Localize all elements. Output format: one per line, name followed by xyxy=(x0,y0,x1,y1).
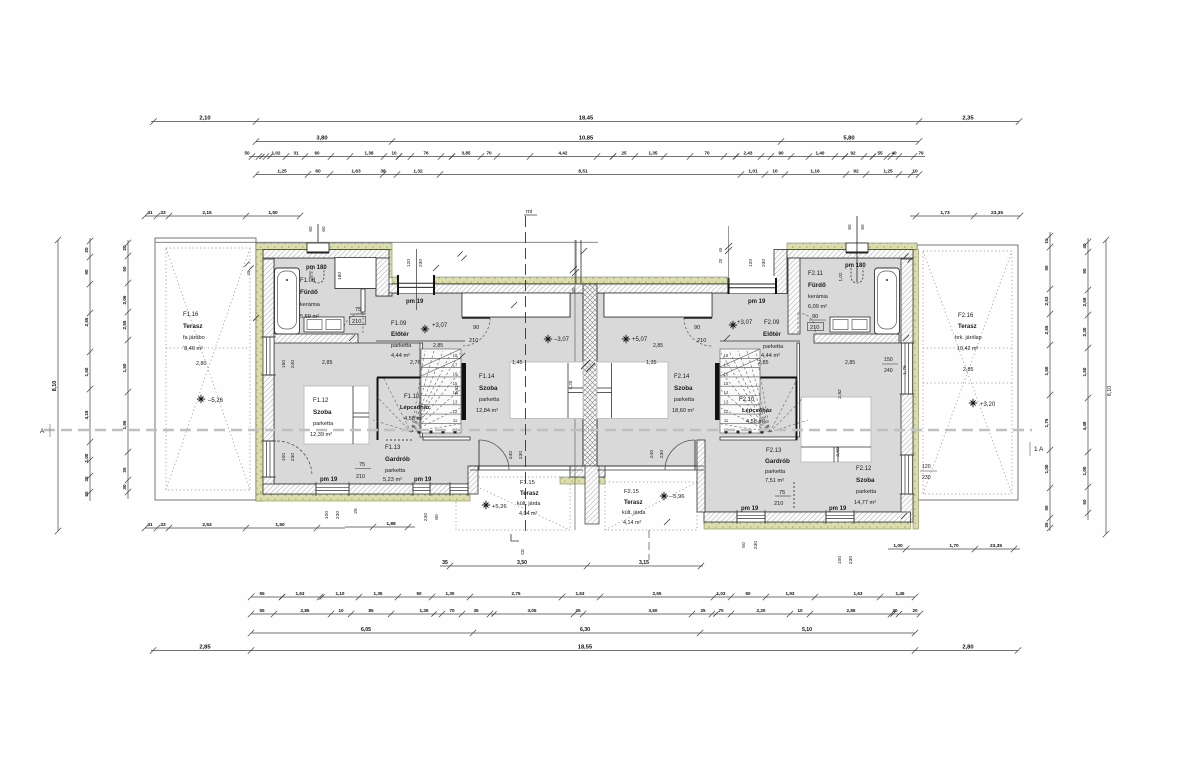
svg-text:50: 50 xyxy=(1082,499,1087,505)
misc tick marks xyxy=(253,248,909,525)
svg-text:2,15: 2,15 xyxy=(202,210,212,216)
bed F2.14 xyxy=(597,362,668,419)
svg-text:pm 19: pm 19 xyxy=(414,477,432,483)
svg-text:2,76: 2,76 xyxy=(410,360,421,366)
dimension chain bottom row D xyxy=(248,630,918,636)
entry door F2 xyxy=(684,317,712,319)
svg-text:33: 33 xyxy=(160,210,166,216)
svg-text:2,82: 2,82 xyxy=(837,389,843,399)
svg-text:–3,07: –3,07 xyxy=(554,337,570,343)
svg-text:pm 19: pm 19 xyxy=(320,477,338,483)
svg-text:90: 90 xyxy=(1044,505,1049,511)
svg-text:12: 12 xyxy=(724,409,729,414)
svg-text:kerámia: kerámia xyxy=(300,302,321,308)
staircase F1.10 xyxy=(421,349,461,433)
svg-text:1,88: 1,88 xyxy=(386,521,396,527)
stair well walls F1 (bold) xyxy=(377,377,421,379)
svg-text:1,63: 1,63 xyxy=(296,591,305,596)
dimension chain top main xyxy=(253,138,922,144)
svg-text:2,80: 2,80 xyxy=(962,645,973,651)
svg-text:1,02: 1,02 xyxy=(272,151,281,156)
svg-text:210: 210 xyxy=(469,338,478,344)
dimension chain top row4 xyxy=(253,171,922,177)
svg-text:1,35: 1,35 xyxy=(649,151,658,156)
svg-text:1,50: 1,50 xyxy=(268,210,278,216)
svg-text:1,00: 1,00 xyxy=(1082,466,1087,475)
svg-text:kült. járda: kült. járda xyxy=(517,501,540,507)
svg-text:50: 50 xyxy=(741,542,747,548)
svg-text:10: 10 xyxy=(338,608,344,613)
svg-text:13: 13 xyxy=(724,400,729,405)
window right wall lower 120/230 xyxy=(900,455,915,494)
window right wall upper 150/240 xyxy=(900,343,915,394)
svg-text:70: 70 xyxy=(486,151,492,156)
svg-text:5,23 m²: 5,23 m² xyxy=(383,477,402,483)
svg-text:1 A: 1 A xyxy=(1034,446,1044,453)
dimension chain bottom terrace doors xyxy=(440,563,704,569)
svg-text:75: 75 xyxy=(359,462,365,468)
svg-text:co: co xyxy=(520,549,526,555)
svg-text:50: 50 xyxy=(745,591,751,596)
svg-text:4,42: 4,42 xyxy=(559,151,568,156)
svg-text:90: 90 xyxy=(84,269,89,275)
floor F2 unit (gray) xyxy=(597,258,902,512)
insulation band (olive) xyxy=(256,243,919,529)
svg-text:F2.13: F2.13 xyxy=(766,448,782,454)
svg-text:10,42 m²: 10,42 m² xyxy=(957,346,978,352)
svg-text:1,45: 1,45 xyxy=(512,360,523,366)
svg-text:230: 230 xyxy=(922,475,931,481)
svg-text:100: 100 xyxy=(837,556,843,564)
washbasins F2 xyxy=(830,317,870,332)
svg-text:1,02: 1,02 xyxy=(838,272,843,281)
svg-text:230: 230 xyxy=(418,259,424,267)
svg-text:2,85: 2,85 xyxy=(433,343,443,349)
svg-text:18: 18 xyxy=(724,353,729,358)
svg-text:2,30: 2,30 xyxy=(1082,327,1087,336)
svg-text:3,80: 3,80 xyxy=(316,136,327,142)
svg-text:4,58 m²: 4,58 m² xyxy=(404,416,423,422)
svg-text:Előtér: Előtér xyxy=(763,331,781,338)
svg-text:10: 10 xyxy=(797,608,803,613)
svg-text:25: 25 xyxy=(353,508,359,514)
svg-text:parketta: parketta xyxy=(674,397,695,403)
svg-text:90: 90 xyxy=(473,325,479,331)
svg-text:240: 240 xyxy=(649,450,655,458)
room labels F2 unit xyxy=(622,335,630,343)
svg-text:4,20: 4,20 xyxy=(568,380,573,389)
svg-text:2,85: 2,85 xyxy=(758,360,769,366)
svg-text:210: 210 xyxy=(774,501,783,507)
svg-text:2,85: 2,85 xyxy=(199,645,211,651)
terrace F1.16 (left) xyxy=(155,238,256,500)
svg-text:33: 33 xyxy=(160,522,166,528)
terrace door F1.14 xyxy=(479,440,509,470)
svg-text:4,04 m²: 4,04 m² xyxy=(519,511,537,517)
svg-text:18,45: 18,45 xyxy=(579,116,594,122)
svg-text:2,85: 2,85 xyxy=(845,360,855,366)
svg-text:230: 230 xyxy=(290,453,296,461)
svg-text:1,35: 1,35 xyxy=(374,591,383,596)
svg-text:25: 25 xyxy=(575,608,581,613)
svg-text:31: 31 xyxy=(147,522,153,528)
svg-text:120: 120 xyxy=(406,259,412,267)
svg-text:230: 230 xyxy=(753,541,759,549)
svg-text:1,95: 1,95 xyxy=(122,420,127,429)
svg-text:8,10: 8,10 xyxy=(52,381,58,392)
svg-text:100: 100 xyxy=(281,453,287,461)
washbasins F1 xyxy=(304,317,344,332)
svg-text:120: 120 xyxy=(922,464,931,470)
svg-text:–5,96: –5,96 xyxy=(670,494,685,500)
dimension chain top-right terrace chain xyxy=(910,213,1023,219)
svg-text:2,85: 2,85 xyxy=(653,343,663,349)
svg-text:90: 90 xyxy=(694,325,700,331)
svg-text:120: 120 xyxy=(748,259,754,267)
svg-text:15: 15 xyxy=(453,381,458,386)
svg-text:23,35: 23,35 xyxy=(990,543,1002,549)
axis A (horizontal, dashed gray) xyxy=(44,429,1032,432)
svg-text:35: 35 xyxy=(473,608,479,613)
svg-text:92: 92 xyxy=(853,169,859,175)
extra double slashes, corner marks xyxy=(244,154,912,617)
svg-text:1,25: 1,25 xyxy=(883,169,893,175)
svg-text:1,30: 1,30 xyxy=(446,591,455,596)
svg-text:230: 230 xyxy=(761,259,767,267)
svg-text:240: 240 xyxy=(508,451,514,459)
svg-text:1,32: 1,32 xyxy=(413,169,423,175)
svg-text:Terasz: Terasz xyxy=(624,500,643,506)
svg-text:12: 12 xyxy=(453,409,458,414)
svg-text:1,70: 1,70 xyxy=(949,543,959,549)
svg-text:F2.11: F2.11 xyxy=(808,271,824,277)
svg-text:10: 10 xyxy=(391,151,397,156)
svg-text:3,60: 3,60 xyxy=(649,608,658,613)
svg-text:mi: mi xyxy=(526,209,532,215)
svg-text:31: 31 xyxy=(147,210,153,216)
axis mi (vertical, dashed) xyxy=(525,216,527,532)
svg-text:pm 19: pm 19 xyxy=(829,506,847,512)
svg-text:2,75: 2,75 xyxy=(512,591,521,596)
svg-text:Gardrób: Gardrób xyxy=(765,458,790,465)
opening bottom wall F1 pm19 xyxy=(413,482,430,496)
svg-text:31: 31 xyxy=(293,151,299,156)
svg-text:fa járóbo: fa járóbo xyxy=(183,335,205,341)
svg-text:60: 60 xyxy=(314,151,320,156)
svg-text:2,58: 2,58 xyxy=(1082,297,1087,306)
bath door F2.11 (dashed swing) xyxy=(798,313,815,333)
svg-text:18,60 m²: 18,60 m² xyxy=(672,408,694,414)
svg-text:18,55: 18,55 xyxy=(578,645,593,651)
svg-text:2,55: 2,55 xyxy=(653,591,662,596)
entry door F1 xyxy=(462,317,490,319)
svg-text:parketta: parketta xyxy=(856,489,877,495)
interior partition walls xyxy=(420,343,800,440)
bed F1.14 xyxy=(510,362,583,419)
eaves line xyxy=(155,241,598,243)
svg-text:Lépcsőház: Lépcsőház xyxy=(400,405,430,411)
svg-text:parketta: parketta xyxy=(763,344,784,350)
svg-text:1,50: 1,50 xyxy=(84,367,89,376)
svg-text:+3,07: +3,07 xyxy=(737,320,753,326)
terrace door F2.14 xyxy=(665,440,695,470)
svg-text:11: 11 xyxy=(724,418,729,423)
svg-text:11: 11 xyxy=(453,418,458,423)
svg-text:2,35: 2,35 xyxy=(962,116,974,122)
svg-text:4,48: 4,48 xyxy=(1082,421,1087,430)
svg-text:2,85: 2,85 xyxy=(322,360,333,366)
svg-text:1,73: 1,73 xyxy=(940,210,950,216)
entry window left 120/230 xyxy=(398,276,434,293)
staircase F2.10 xyxy=(720,349,760,433)
svg-text:parketta: parketta xyxy=(479,397,500,403)
svg-text:2,82: 2,82 xyxy=(454,385,460,395)
svg-text:40: 40 xyxy=(1082,243,1087,249)
svg-text:F1.14: F1.14 xyxy=(479,374,495,380)
property line xyxy=(574,240,576,530)
svg-text:4,14 m²: 4,14 m² xyxy=(623,520,641,526)
svg-text:2,53: 2,53 xyxy=(1044,296,1049,305)
svg-text:+5,26: +5,26 xyxy=(492,504,507,510)
svg-text:5,80: 5,80 xyxy=(843,136,854,142)
dimension chain bottom overall xyxy=(150,647,1021,653)
svg-text:2,55: 2,55 xyxy=(122,320,127,329)
svg-text:180: 180 xyxy=(337,272,343,280)
svg-text:F1.09: F1.09 xyxy=(391,321,407,327)
svg-text:A: A xyxy=(40,428,45,435)
small wall bath door F1 xyxy=(361,289,365,312)
svg-text:3,50: 3,50 xyxy=(517,560,527,566)
svg-text:45: 45 xyxy=(246,270,251,275)
svg-text:12,39 m²: 12,39 m² xyxy=(310,432,332,438)
svg-text:+5,07: +5,07 xyxy=(632,337,648,343)
svg-text:brk. járólap: brk. járólap xyxy=(955,335,982,341)
svg-text:Gardrób: Gardrób xyxy=(385,456,410,463)
svg-text:230: 230 xyxy=(518,451,524,459)
svg-text:1,45: 1,45 xyxy=(896,591,905,596)
svg-text:Előtér: Előtér xyxy=(391,331,409,338)
svg-text:F1.08: F1.08 xyxy=(300,278,316,284)
bath door F1.08 (dashed swing) xyxy=(343,313,363,333)
svg-text:70: 70 xyxy=(704,151,710,156)
entry porch F1 (white recess) xyxy=(462,293,570,317)
svg-text:1,16: 1,16 xyxy=(810,169,820,175)
dimension chain bottom-left terrace chain xyxy=(142,525,345,531)
svg-text:55: 55 xyxy=(877,151,883,156)
svg-text:92: 92 xyxy=(850,151,856,156)
svg-text:20: 20 xyxy=(718,258,723,263)
gardrob door F1.13 xyxy=(386,439,412,441)
svg-text:60: 60 xyxy=(860,224,865,230)
svg-text:pm 19: pm 19 xyxy=(748,299,766,305)
svg-text:F1.10: F1.10 xyxy=(404,394,420,400)
svg-text:60: 60 xyxy=(315,169,321,175)
chimney / vent right xyxy=(846,243,868,253)
svg-text:1,75: 1,75 xyxy=(1044,418,1049,427)
floor F1 unit (gray) xyxy=(274,258,583,484)
svg-text:20: 20 xyxy=(122,245,127,251)
svg-text:8,10: 8,10 xyxy=(1107,386,1113,397)
svg-text:50: 50 xyxy=(416,591,422,596)
svg-text:parketta: parketta xyxy=(391,343,412,349)
svg-text:50: 50 xyxy=(244,151,250,156)
svg-text:1,00: 1,00 xyxy=(893,543,903,549)
svg-text:20: 20 xyxy=(912,608,918,613)
svg-text:240: 240 xyxy=(290,360,296,368)
svg-text:15: 15 xyxy=(1044,238,1049,244)
window bottom wall F2 100/230 xyxy=(826,510,854,524)
svg-text:35: 35 xyxy=(1044,522,1049,528)
svg-text:60: 60 xyxy=(308,226,313,232)
svg-text:1,50: 1,50 xyxy=(1044,366,1049,375)
svg-text:1,93: 1,93 xyxy=(786,591,795,596)
svg-text:parketta: parketta xyxy=(765,469,786,475)
svg-text:230: 230 xyxy=(848,556,854,564)
party wall axis above xyxy=(575,240,577,283)
svg-text:23,35: 23,35 xyxy=(991,210,1003,216)
svg-text:1,53: 1,53 xyxy=(576,591,585,596)
svg-text:Terasz: Terasz xyxy=(958,324,977,330)
svg-text:pm 180: pm 180 xyxy=(845,263,866,269)
svg-text:Szoba: Szoba xyxy=(674,385,693,392)
svg-text:45: 45 xyxy=(718,247,723,252)
svg-text:75: 75 xyxy=(779,490,785,496)
gardrob door F2.13 xyxy=(793,482,795,510)
terrace F2.15 (bottom centre-right) xyxy=(605,482,697,530)
chimney / vent left xyxy=(307,243,329,253)
dimension chain left row3 xyxy=(125,240,131,499)
svg-text:F1.15: F1.15 xyxy=(520,480,535,486)
svg-text:230: 230 xyxy=(335,511,341,519)
svg-text:1,63: 1,63 xyxy=(854,591,863,596)
svg-text:F2.10: F2.10 xyxy=(739,397,755,403)
svg-text:55: 55 xyxy=(259,591,265,596)
svg-text:40: 40 xyxy=(891,151,897,156)
svg-text:75: 75 xyxy=(355,307,361,313)
dimension chain bottom-right terrace chain xyxy=(888,546,1020,552)
dimension chain right row1 xyxy=(1047,232,1053,531)
svg-text:100: 100 xyxy=(324,511,330,519)
svg-text:2,60: 2,60 xyxy=(835,447,841,457)
svg-text:38: 38 xyxy=(380,169,386,175)
svg-text:2,55: 2,55 xyxy=(84,317,89,326)
svg-text:70: 70 xyxy=(718,608,724,613)
svg-text:85: 85 xyxy=(368,608,374,613)
svg-text:Szoba: Szoba xyxy=(856,477,875,484)
svg-text:F2.12: F2.12 xyxy=(856,466,872,472)
svg-text:35: 35 xyxy=(122,467,127,473)
svg-text:1,63: 1,63 xyxy=(351,169,361,175)
svg-text:2,55: 2,55 xyxy=(1044,325,1049,334)
svg-text:6,05: 6,05 xyxy=(361,627,371,633)
svg-text:Fürdő: Fürdő xyxy=(300,289,318,296)
svg-text:2,53: 2,53 xyxy=(202,522,212,528)
svg-text:55: 55 xyxy=(259,608,265,613)
bathtub F2 xyxy=(875,268,900,334)
svg-text:F2.16: F2.16 xyxy=(958,313,974,319)
svg-text:230: 230 xyxy=(659,450,665,458)
svg-text:1,40: 1,40 xyxy=(816,151,825,156)
svg-text:2,20: 2,20 xyxy=(757,608,766,613)
svg-text:1,10: 1,10 xyxy=(336,591,345,596)
svg-text:kült. járda: kült. járda xyxy=(622,510,645,516)
svg-text:7,51 m²: 7,51 m² xyxy=(765,478,784,484)
svg-text:1,35: 1,35 xyxy=(646,360,657,366)
F2.15 terrace axis xyxy=(648,530,650,560)
svg-text:20: 20 xyxy=(84,247,89,253)
svg-text:25: 25 xyxy=(700,608,706,613)
svg-text:30: 30 xyxy=(122,484,127,490)
svg-text:80: 80 xyxy=(434,514,440,520)
svg-text:10,85: 10,85 xyxy=(579,136,594,142)
party wall (cross-hatched) xyxy=(583,284,597,466)
svg-text:76: 76 xyxy=(423,151,429,156)
svg-text:1,50: 1,50 xyxy=(275,522,285,528)
svg-text:210: 210 xyxy=(810,325,819,331)
svg-text:parketta: parketta xyxy=(385,468,406,474)
dimension chain left overall xyxy=(55,237,61,534)
svg-text:150: 150 xyxy=(281,360,287,368)
svg-text:F1.12: F1.12 xyxy=(313,398,329,404)
svg-text:210: 210 xyxy=(352,319,361,325)
svg-text:+3,07: +3,07 xyxy=(432,323,448,329)
svg-text:F2.09: F2.09 xyxy=(764,320,780,326)
svg-text:50: 50 xyxy=(122,266,127,272)
svg-text:pm 19: pm 19 xyxy=(741,506,759,512)
opening bottom wall F1 xyxy=(450,482,468,496)
dimension chain right row2 xyxy=(1085,238,1091,520)
svg-text:15: 15 xyxy=(724,381,729,386)
svg-text:1,35: 1,35 xyxy=(420,608,429,613)
svg-text:1,76: 1,76 xyxy=(902,365,908,375)
glazed walls to inner terraces xyxy=(470,466,704,470)
dimension chain left row2 xyxy=(87,238,93,501)
svg-text:8,51: 8,51 xyxy=(578,169,588,175)
svg-text:2,85: 2,85 xyxy=(301,608,310,613)
svg-text:60: 60 xyxy=(847,224,852,230)
svg-text:6,30: 6,30 xyxy=(580,627,590,633)
svg-text:1,38: 1,38 xyxy=(365,151,374,156)
svg-text:Szoba: Szoba xyxy=(313,409,332,416)
svg-text:12,84 m²: 12,84 m² xyxy=(476,408,498,414)
svg-text:13: 13 xyxy=(453,400,458,405)
svg-text:kerámia: kerámia xyxy=(808,294,829,300)
svg-text:90: 90 xyxy=(812,314,818,320)
dimension chain bottom row C xyxy=(248,611,923,617)
exterior walls (hatched) xyxy=(263,250,913,523)
dimension chain top detail row xyxy=(249,153,925,159)
svg-text:5,10: 5,10 xyxy=(802,627,812,633)
entry porch F2 (white recess) xyxy=(604,293,712,317)
svg-text:Lépcsőház: Lépcsőház xyxy=(742,408,772,414)
svg-text:F2.14: F2.14 xyxy=(674,374,690,380)
svg-text:F1.13: F1.13 xyxy=(385,445,401,451)
svg-text:parketta: parketta xyxy=(313,421,334,427)
svg-text:50: 50 xyxy=(84,491,89,497)
svg-text:14,77 m²: 14,77 m² xyxy=(854,500,876,506)
svg-text:4,58 m²: 4,58 m² xyxy=(746,419,765,425)
svg-text:Terasz: Terasz xyxy=(520,491,539,497)
dimension chain right overall xyxy=(1103,237,1109,537)
svg-text:3,05: 3,05 xyxy=(528,608,537,613)
svg-text:2,43: 2,43 xyxy=(744,151,753,156)
svg-text:1,03: 1,03 xyxy=(717,591,726,596)
svg-text:2,10: 2,10 xyxy=(199,116,210,122)
svg-text:6,09 m²: 6,09 m² xyxy=(808,304,827,310)
svg-text:2,06: 2,06 xyxy=(122,295,127,304)
svg-text:17: 17 xyxy=(453,362,458,367)
window bottom wall F2 50/230 xyxy=(737,510,765,524)
